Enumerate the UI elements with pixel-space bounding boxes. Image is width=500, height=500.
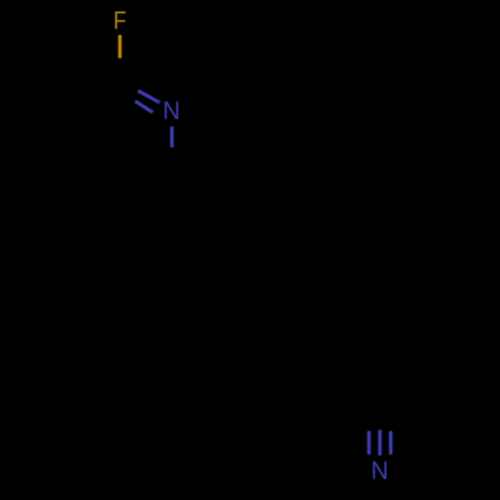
nitrile triple bond C#N middle line (blue) xyxy=(378,430,382,456)
svg-text:F: F xyxy=(113,7,126,35)
bond N1-C6 (nitrogen-side half, blue) xyxy=(170,126,174,147)
bond C2=N1 main line (nitrogen-side half, blue) xyxy=(138,91,160,103)
svg-text:N: N xyxy=(371,457,388,485)
nitrile triple bond C#N left line (blue) xyxy=(367,431,371,455)
bond C2=N1 inner double-bond line (nitrogen-side half, blue) xyxy=(135,101,153,112)
svg-text:N: N xyxy=(163,97,180,125)
bond F-C2 (fluorine-side half, gold) xyxy=(118,35,122,58)
hidden carbon skeleton (black on black, pyridine ring + cage, invisible) xyxy=(68,80,172,200)
nitrile triple bond C#N right line (blue) xyxy=(389,431,393,455)
